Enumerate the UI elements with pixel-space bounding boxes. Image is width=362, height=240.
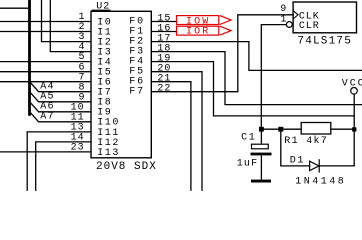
svg-text:IOR: IOR [186,26,210,37]
svg-text:1uF: 1uF [237,158,259,169]
wire (pin 23 / I13 from left edge) [0,151,91,153]
pin names F0-F7 [129,17,145,98]
wire (pin 18 net to right edge) [151,52,362,105]
wire (left edge into bus) [0,7,30,9]
wire (pin 6 / I5 from left edge) [0,71,91,73]
junction node (CLR/R1/C1) [259,127,264,132]
wire (bus entry + net A6 to pin 10) [30,102,91,112]
wire (pin 7 / I6 from left edge) [0,81,91,83]
wire (pin 13 / I11 vertical to bottom) [27,132,91,190]
svg-text:74LS175: 74LS175 [297,35,352,47]
wire (vertical from top to pin 3) [42,0,92,42]
wire (pin 17 net to right edge) [151,42,362,71]
pin numbers left [71,12,86,153]
label U2 [92,2,111,13]
svg-text:F7: F7 [129,87,145,98]
inverter bubble on CLR [286,22,292,28]
diode D1 [310,159,320,172]
svg-text:9: 9 [280,4,286,15]
wire (vertical from top to pin 4) [50,0,91,52]
wire (pin 21 down to bottom) [151,82,191,191]
pin names I0-I13 [97,17,120,158]
net label IOW (red flag) [177,16,232,25]
wire (pin 16 to IOR label) [151,31,176,33]
wire (reset node row to R1) [261,128,301,130]
wire (pin 20 down to bottom) [151,72,202,191]
resistor R1 body [301,123,331,135]
svg-text:1N4148: 1N4148 [295,176,346,187]
wire (D1 cathode to right vertical up) [319,129,354,166]
power VCC symbol [342,79,362,130]
svg-text:C1: C1 [241,132,256,143]
capacitor C1 [251,129,272,179]
svg-text:D1: D1 [290,156,305,167]
svg-text:20V8 SDX: 20V8 SDX [96,161,157,173]
wire (D1 left branch down) [281,129,310,166]
bus (address bus, thick vertical) [28,0,31,114]
wire (pin 2 / I1 from left edge) [0,31,91,33]
net label IOR (red flag) [177,26,232,35]
svg-text:23: 23 [71,143,85,154]
svg-text:A7: A7 [40,112,54,123]
junction node (D1 branch) [278,127,283,132]
wire (R1 right to VCC node) [331,128,354,130]
wire (bus entry + net A4 to pin 8) [30,82,91,92]
IC U3 box (74LS175) [293,2,356,33]
wire (pin 5 / I4 from left edge) [0,61,91,63]
wire (pin 15 to IOW label) [151,21,176,23]
svg-text:1: 1 [280,15,286,26]
wire (pin 19 net to VCC vertical) [151,62,354,116]
wire (pin 1 / I0 from left edge) [0,21,91,23]
svg-text:U2: U2 [96,2,110,13]
wire (pin 14 / I12 vertical to bottom) [36,142,91,190]
svg-text:22: 22 [157,84,171,95]
svg-text:CLR: CLR [299,21,320,32]
wire (pin 22 to CLK vertical) [151,91,238,93]
ground symbol [251,180,271,183]
svg-text:I13: I13 [97,148,120,159]
pin numbers right [157,13,171,94]
junction node (R1/D1/VCC) [352,127,356,131]
clock triangle pin symbol [293,11,298,19]
wire (CLK net vertical and into 74LS175) [238,15,293,92]
wire (CLR net vertical down to reset node) [261,25,287,130]
wire (bus entry + net A7 to pin 11) [30,112,91,122]
wire (bus entry + net A5 to pin 9) [30,92,91,102]
IC U2 box (GAL 20V8 SDX) [91,11,151,158]
svg-text:R1 4k7: R1 4k7 [284,135,328,147]
